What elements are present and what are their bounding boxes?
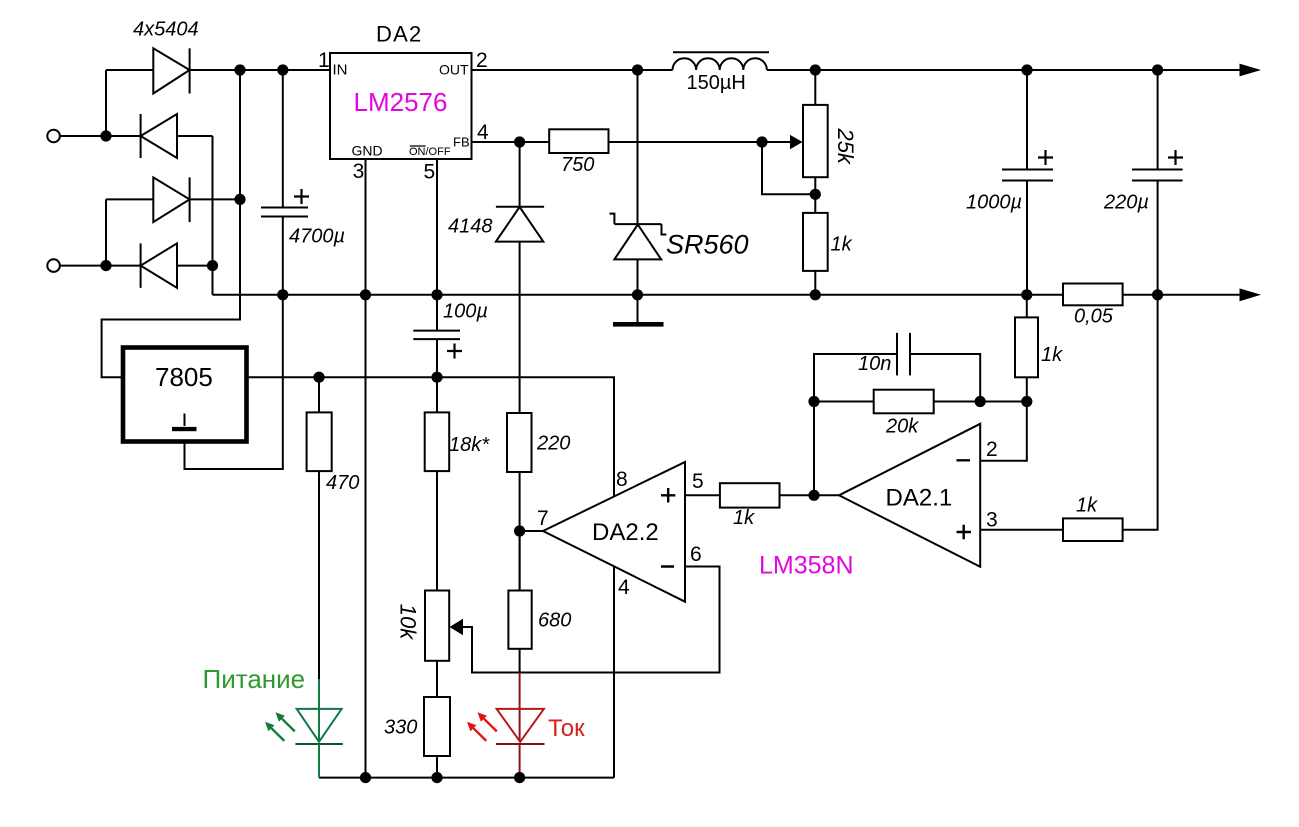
diode VD2 xyxy=(141,114,177,158)
resistor R8 1k (pin5) xyxy=(720,483,780,507)
wire diode row top-left y=199.4 xyxy=(106,198,240,200)
resistor R5 470 xyxy=(307,377,360,679)
capacitor C1 4700u xyxy=(261,70,345,295)
svg-text:Питание: Питание xyxy=(203,664,306,694)
resistor R10 1k (to shunt) xyxy=(980,295,1063,461)
wire 25k wiper return xyxy=(762,142,815,194)
inductor L1 150uH xyxy=(673,58,767,70)
LED VD8 arrows xyxy=(467,712,497,741)
svg-text:10k: 10k xyxy=(396,604,421,640)
resistor R3 1k under pot xyxy=(803,213,828,271)
svg-text:220µ: 220µ xyxy=(1103,192,1149,214)
svg-text:220: 220 xyxy=(536,433,570,455)
wire DA2.2 pin5 row y=495.3 xyxy=(685,494,839,496)
diode VD3 xyxy=(153,177,189,222)
svg-text:FB: FB xyxy=(453,135,470,150)
svg-text:5: 5 xyxy=(424,161,436,184)
wire feedback mid row y=401.5 xyxy=(814,401,1027,403)
svg-text:6: 6 xyxy=(690,543,702,566)
LED VD7 green power xyxy=(295,679,342,778)
svg-text:ON/OFF: ON/OFF xyxy=(409,146,451,158)
terminal AC input 1 xyxy=(47,130,60,143)
regulator U2 7805 box xyxy=(123,348,247,442)
svg-text:7: 7 xyxy=(537,507,549,530)
resistor R4 0,05 shunt xyxy=(1063,284,1123,306)
svg-text:1000µ: 1000µ xyxy=(966,192,1022,214)
wire mid GND rail y=294.8 xyxy=(213,294,1241,296)
svg-text:0,05: 0,05 xyxy=(1074,306,1114,328)
svg-text:4: 4 xyxy=(618,576,630,599)
svg-text:680: 680 xyxy=(538,610,571,632)
wire input row 1 y=136 xyxy=(60,135,213,137)
arrow top rail output xyxy=(1240,64,1262,77)
svg-text:SR560: SR560 xyxy=(666,230,749,260)
resistor R11 1k (pin3) xyxy=(1063,518,1123,541)
wire DA2.2 pin6 feedback xyxy=(463,567,720,673)
svg-text:3: 3 xyxy=(986,508,998,531)
svg-text:10n: 10n xyxy=(858,353,891,375)
svg-text:330: 330 xyxy=(384,717,417,739)
diode VD6 SR560 schottky xyxy=(610,70,667,295)
potentiometer R2 25k xyxy=(790,70,858,213)
svg-text:1k: 1k xyxy=(733,507,755,529)
wire DA2.1 pin1 feedback loop xyxy=(814,354,980,495)
wire top +V rail y=70 xyxy=(106,69,1240,71)
wire vertical x=240 rectified plus to 7805 xyxy=(102,70,240,377)
IC DA2 LM2576 box xyxy=(330,53,472,159)
svg-text:5: 5 xyxy=(692,470,704,493)
svg-text:DA2: DA2 xyxy=(376,22,422,47)
svg-text:470: 470 xyxy=(326,472,359,494)
diode VD4 xyxy=(141,243,177,288)
op-amp U1a DA2.1 xyxy=(839,424,980,567)
capacitor C4 100u xyxy=(413,295,488,377)
capacitor C3 220u xyxy=(1103,70,1183,530)
svg-text:1k: 1k xyxy=(1076,495,1098,517)
capacitor C5 10n xyxy=(858,333,910,376)
resistor R6 18k* xyxy=(425,377,491,590)
resistor R14 330 xyxy=(384,661,450,778)
wire bottom rail y=777.6 xyxy=(319,777,614,779)
wire +5V row y=377.2 xyxy=(247,377,614,777)
svg-text:GND: GND xyxy=(352,143,383,159)
svg-text:7805: 7805 xyxy=(155,362,213,392)
svg-text:100µ: 100µ xyxy=(443,301,488,323)
wire FB row y=142 xyxy=(472,141,792,143)
diode VD5 4148 xyxy=(496,142,544,413)
svg-text:DA2.1: DA2.1 xyxy=(886,485,953,512)
svg-text:4700µ: 4700µ xyxy=(289,226,345,248)
wire DA2 pin5 down xyxy=(436,159,438,295)
wire input row 2 y=265.6 xyxy=(60,265,213,267)
wire vertical x=106 xyxy=(105,70,107,266)
svg-text:150µH: 150µH xyxy=(687,72,746,94)
ground symbol inside 7805 xyxy=(184,414,186,427)
svg-text:4x5404: 4x5404 xyxy=(133,19,199,41)
svg-text:1: 1 xyxy=(318,49,330,72)
svg-text:20k: 20k xyxy=(885,416,919,438)
svg-text:8: 8 xyxy=(616,468,628,491)
svg-text:750: 750 xyxy=(561,154,594,176)
svg-text:2: 2 xyxy=(986,438,998,461)
terminal AC input 2 xyxy=(47,259,60,272)
svg-text:2: 2 xyxy=(476,49,488,72)
wire 7805 GND pin xyxy=(185,295,283,469)
op-amp U1b DA2.2 xyxy=(543,462,685,602)
wire vertical x=212.5 to rail start xyxy=(212,136,214,295)
ground symbol under SR560 xyxy=(637,295,639,322)
svg-text:OUT: OUT xyxy=(439,62,469,78)
wire DA2.1 pin3 row y=529.7 xyxy=(980,529,1063,531)
resistor R1 750 xyxy=(549,129,608,153)
resistor R7 220 xyxy=(507,413,570,591)
svg-text:4: 4 xyxy=(477,121,489,144)
svg-text:25k: 25k xyxy=(833,127,858,164)
svg-text:DA2.2: DA2.2 xyxy=(592,519,659,546)
resistor R13 680 xyxy=(508,531,571,673)
potentiometer R12 10k xyxy=(396,591,464,661)
capacitor C2 1000u xyxy=(966,70,1053,295)
resistor R9 20k xyxy=(874,390,934,414)
wire DA2.2 pin7 xyxy=(520,530,543,532)
svg-text:4148: 4148 xyxy=(448,216,493,238)
svg-text:LM358N: LM358N xyxy=(759,552,854,580)
LED VD8 red current xyxy=(496,673,545,778)
svg-text:IN: IN xyxy=(333,62,348,79)
diode VD1 xyxy=(153,48,189,93)
svg-text:Ток: Ток xyxy=(548,715,585,742)
svg-text:1k: 1k xyxy=(831,234,853,256)
svg-text:LM2576: LM2576 xyxy=(354,87,448,117)
svg-text:1k: 1k xyxy=(1041,344,1063,366)
arrow mid rail output xyxy=(1240,288,1262,301)
LED VD7 arrows xyxy=(265,712,295,741)
wire DA2 pin3 GND down xyxy=(365,159,367,778)
svg-text:18k*: 18k* xyxy=(449,434,490,456)
svg-text:3: 3 xyxy=(353,160,365,183)
